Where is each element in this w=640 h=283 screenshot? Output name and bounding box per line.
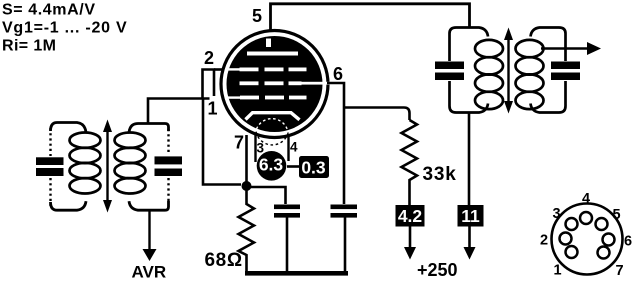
wire pin 7 cathode down [245,135,248,183]
svg-text:2: 2 [204,48,214,68]
output arrow [541,47,588,50]
svg-text:6: 6 [624,234,632,250]
T1 primary tuning capacitor C1 [36,157,64,165]
socket pin 1 [566,246,578,258]
anode current box 11 [458,205,484,227]
svg-text:33k: 33k [423,164,457,185]
svg-text:1: 1 [208,99,218,119]
svg-text:AVR: AVR [132,263,167,282]
AVR arrow [143,249,157,261]
tube V1 electrode blob [227,36,323,132]
T1 primary bottom edge [51,201,87,210]
heater pin3 lead [254,135,256,162]
svg-text:Vg1=-1 ... -20 V: Vg1=-1 ... -20 V [2,20,127,37]
svg-text:11: 11 [461,206,480,226]
socket pin 7 [598,247,610,259]
anode lead tick [266,39,271,48]
ground rail [245,271,348,276]
T2 secondary coil L4 [516,40,544,57]
wire T1 secondary bottom to AVR [148,210,150,250]
heater voltage label 6.3 [257,151,287,181]
arrow to +250 (left) [409,227,412,249]
screen voltage box 4.2 [396,205,425,227]
T1 secondary right edge dotted above cap [167,129,169,155]
grid row 3 dashes [240,96,259,100]
wire anode pin5 to output transformer top [271,4,470,30]
stub to 0.3 box [287,165,300,168]
T2 primary tuning capacitor C5 [435,62,464,70]
svg-text:4.2: 4.2 [398,206,423,226]
T2 secondary outline bottom [531,81,566,113]
grid row 1 lead-in [227,68,240,70]
T1 secondary right edge dotted below cap [167,178,169,204]
T1 secondary tuning capacitor C2 [155,156,183,164]
socket outline [552,204,623,275]
wire branch to 33k [344,108,410,121]
grid row 2 dashes [240,81,259,85]
svg-text:S= 4.4mA/V: S= 4.4mA/V [2,2,96,19]
svg-text:4: 4 [582,191,590,207]
socket pin 3 [566,218,578,230]
grid row 3 lead-in [227,96,241,98]
wire transformer primary to 11 box [468,112,471,205]
svg-text:Ri= 1M: Ri= 1M [2,38,56,55]
wire junction to cap C3 [247,187,286,204]
T1 secondary coil L2 [115,133,146,148]
svg-text:6.3: 6.3 [259,155,284,175]
T2 tuning arrow [507,38,509,103]
svg-text:1: 1 [554,263,562,279]
svg-text:3: 3 [257,141,265,156]
svg-text:2: 2 [540,233,548,249]
socket pin 5 [596,218,608,230]
T1 secondary top edge [129,124,169,133]
T2 primary outline top [450,28,489,62]
svg-text:68Ω: 68Ω [205,250,243,271]
arrow to +250 (right) [468,227,471,249]
resistor R1 68 ohm [239,190,255,271]
T2 primary outline bottom [450,81,489,113]
junction dot [242,181,252,191]
T1 secondary bottom edge [129,201,169,210]
T2 primary coil L3 [475,40,503,57]
resistor R2 33k [402,120,418,205]
svg-text:5: 5 [613,207,621,223]
wire pin 6 to screen network [327,83,344,204]
svg-text:7: 7 [616,263,624,279]
svg-text:3: 3 [553,206,561,222]
T1 primary outline left edge dotted bottom [49,178,51,206]
svg-text:4: 4 [290,140,298,155]
anode plate bar [247,52,298,56]
T1 primary outline left edge dotted top [49,128,51,156]
capacitor C3 [274,205,300,210]
T1 primary top edge [51,123,87,133]
grid row 1 dashes [240,68,259,72]
socket pin 6 [603,234,615,246]
grid bracket pins 2 and 1 [203,70,215,99]
T2 secondary tuning capacitor C6 [551,62,580,70]
svg-text:5: 5 [252,6,262,26]
grid row 2 lead-out to pin 6 [302,82,330,85]
socket pin 2 [560,233,572,245]
heater pin4 lead [287,135,289,161]
wire from input transformer to grid [148,99,210,123]
socket pin 4 [580,212,592,224]
heater current label 0.3 [299,156,329,178]
wire grid return down to junction [203,99,241,185]
svg-text:+250: +250 [417,260,458,280]
svg-text:7: 7 [234,133,244,153]
cathode [246,113,300,120]
svg-text:6: 6 [333,64,343,84]
T2 secondary outline top [531,28,566,62]
capacitor C4 [331,205,358,210]
T1 primary coil L1 [70,133,101,148]
tube V1 envelope [221,31,328,138]
heater circle dashed [257,119,288,130]
T1 tuning arrow [106,130,108,202]
svg-text:0.3: 0.3 [301,158,326,178]
